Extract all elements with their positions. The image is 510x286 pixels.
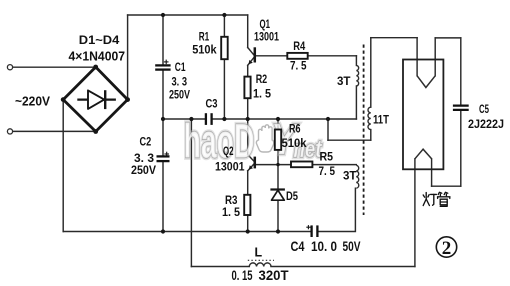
svg-text:250V: 250V [131, 163, 156, 177]
svg-text:10. 0: 10. 0 [311, 238, 337, 254]
svg-text:C5: C5 [479, 104, 489, 116]
svg-text:Q2: Q2 [223, 144, 234, 158]
svg-text:11T: 11T [373, 112, 390, 126]
svg-text:1. 5: 1. 5 [222, 205, 240, 219]
svg-text:3T: 3T [343, 169, 357, 183]
svg-text:7. 5: 7. 5 [319, 164, 336, 178]
svg-text:R5: R5 [320, 150, 334, 164]
svg-text:D1~D4: D1~D4 [79, 33, 120, 47]
svg-text:320T: 320T [259, 267, 289, 283]
svg-text:L: L [255, 246, 263, 260]
svg-text:13001: 13001 [254, 29, 279, 43]
svg-text:R2: R2 [256, 72, 268, 86]
svg-text:3. 3: 3. 3 [172, 75, 188, 89]
svg-text:R1: R1 [199, 29, 210, 43]
svg-text:510k: 510k [192, 43, 217, 57]
svg-text:250V: 250V [169, 88, 190, 102]
svg-text:C4: C4 [291, 238, 305, 254]
svg-text:1. 5: 1. 5 [253, 87, 271, 101]
svg-text:~220V: ~220V [15, 94, 50, 109]
svg-text:7. 5: 7. 5 [290, 59, 307, 73]
svg-text:0. 15: 0. 15 [232, 267, 253, 283]
svg-text:510k: 510k [282, 136, 307, 150]
svg-text:R6: R6 [289, 121, 301, 135]
svg-text:13001: 13001 [215, 160, 245, 174]
svg-text:C3: C3 [206, 96, 218, 110]
svg-text:R4: R4 [293, 39, 305, 53]
svg-text:2J222J: 2J222J [468, 119, 504, 131]
svg-text:D5: D5 [286, 189, 298, 203]
svg-text:C2: C2 [140, 135, 152, 149]
svg-text:2: 2 [442, 238, 452, 259]
svg-text:3T: 3T [337, 74, 351, 88]
svg-text:4×1N4007: 4×1N4007 [69, 50, 126, 64]
svg-text:50V: 50V [343, 238, 361, 254]
svg-text:C1: C1 [175, 60, 186, 74]
